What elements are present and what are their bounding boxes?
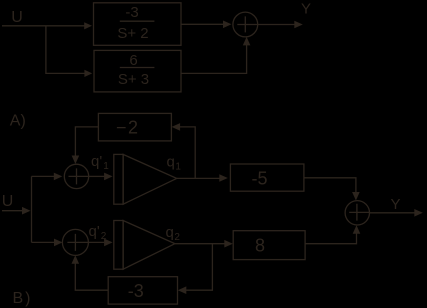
- svg-text:-3: -3: [128, 281, 144, 301]
- arrow into integrator I2: [104, 239, 113, 247]
- svg-text:6: 6: [129, 52, 137, 69]
- wire G1 output to summer: [181, 23, 224, 25]
- arrow into block G1: [84, 22, 92, 29]
- arrow into block K2: [224, 240, 233, 248]
- wire K2 output to summer S3 bottom: [305, 233, 356, 243]
- block F2 gain -3: [108, 277, 177, 304]
- arrow into block G2: [84, 70, 92, 77]
- wire trunk to summer S2: [32, 241, 55, 243]
- wire S3 output to Y: [370, 212, 415, 214]
- plus sign S3: [349, 204, 369, 221]
- integrator I1 bar: [114, 154, 123, 204]
- arrow into summer S1 left: [54, 173, 63, 181]
- fraction bar G1: [120, 20, 155, 22]
- svg-text:U: U: [11, 9, 23, 26]
- arrow into block K1: [219, 174, 228, 182]
- block F1 gain -2: [98, 113, 171, 140]
- svg-text:Y: Y: [301, 0, 311, 17]
- wire tap q2 down to feedback F2: [186, 244, 212, 291]
- wire trunk to summer S1: [32, 175, 55, 177]
- arrow into summer S2 bottom: [72, 255, 80, 264]
- wire K1 output to summer S3 top: [304, 178, 356, 193]
- arrow into summer SA left: [223, 21, 232, 29]
- svg-text:A): A): [10, 113, 26, 130]
- plus sign S1: [69, 168, 89, 184]
- fraction bar G2: [120, 67, 155, 69]
- wire I2 output to block K2: [175, 243, 225, 245]
- arrow into block F1 right side: [172, 123, 181, 131]
- arrow into summer S2 left: [54, 239, 63, 247]
- block G2 6/(S+3): [94, 50, 181, 92]
- wire S2 to integrator I2: [88, 241, 104, 243]
- svg-text:Y: Y: [391, 196, 401, 213]
- integrator I1 triangle: [123, 154, 177, 204]
- svg-text:B): B): [13, 290, 33, 307]
- integrator I2 triangle: [123, 221, 175, 270]
- summer S2: [62, 229, 88, 255]
- arrow into summer S3 top: [352, 192, 360, 201]
- summer S1: [64, 164, 88, 188]
- wire U input (bottom diagram): [2, 210, 23, 212]
- wire G2 output up into summer SA: [181, 45, 247, 74]
- block K1 gain -5: [230, 164, 304, 191]
- wire tap q1 up to feedback F1: [180, 127, 195, 178]
- wire I1 output to block K1: [177, 177, 220, 179]
- wire F1 output to summer S1 top: [75, 127, 98, 156]
- plus sign S2: [67, 234, 88, 251]
- wire F2 output to summer S2 bottom: [75, 263, 108, 290]
- arrow into block F2 right side: [178, 286, 187, 294]
- arrow into integrator I1: [104, 173, 113, 181]
- wire trunk vertical: [31, 176, 33, 242]
- block G1 -3/(S+2): [94, 3, 182, 46]
- arrow output Y (top): [294, 21, 303, 29]
- wire S1 to integrator I1: [89, 175, 105, 177]
- svg-text:−2: −2: [116, 118, 140, 138]
- wire U input to branch point (top diagram): [2, 25, 85, 27]
- block K2 gain 8: [233, 231, 305, 260]
- wire SA output to Y: [258, 24, 295, 26]
- arrow into trunk: [22, 207, 31, 215]
- svg-text:S+ 3: S+ 3: [118, 71, 149, 88]
- plus sign SA: [237, 16, 257, 32]
- arrow into summer S1 top: [72, 156, 80, 165]
- arrow into summer S3 bottom: [353, 225, 361, 234]
- arrow output Y (bottom): [414, 209, 423, 217]
- summer S3: [345, 201, 369, 225]
- svg-text:8: 8: [255, 235, 265, 255]
- svg-text:U: U: [2, 193, 14, 210]
- svg-text:-5: -5: [251, 168, 267, 188]
- wire branch down to lower block: [46, 26, 85, 74]
- integrator I2 bar: [114, 221, 123, 270]
- svg-text:S+ 2: S+ 2: [117, 25, 148, 42]
- svg-text:-3: -3: [125, 4, 138, 21]
- arrow into summer SA bottom: [243, 37, 251, 46]
- summer SA: [233, 12, 258, 37]
